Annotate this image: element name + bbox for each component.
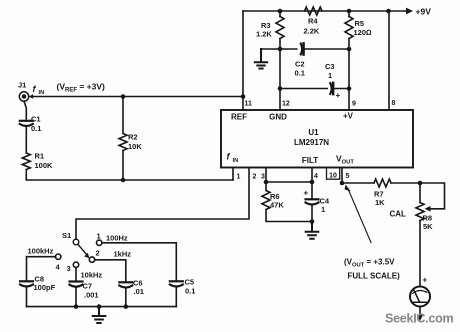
resistor R1 [22,153,30,170]
svg-text:LM2917N: LM2917N [294,138,329,147]
svg-text:120Ω: 120Ω [354,28,373,37]
node junction (125.8,306.6) [124,304,129,309]
svg-text:3: 3 [261,174,265,181]
svg-text:SeekIC.com: SeekIC.com [385,312,454,326]
pin 10 box [327,168,340,180]
svg-text:1: 1 [328,71,332,80]
svg-text:1K: 1K [375,198,385,207]
svg-text:C5: C5 [185,278,195,287]
resistor R7 [374,179,391,187]
svg-text:0.1: 0.1 [295,69,305,78]
svg-text:5: 5 [346,173,350,180]
capacitor C7 [70,280,83,282]
svg-text:+: + [336,91,341,100]
node CAL wiper arrowhead [425,206,431,212]
node junction (349,11) [347,9,352,14]
svg-text:4: 4 [314,173,318,180]
wire R7 to R8 node [391,182,420,184]
svg-text:R4: R4 [308,17,318,26]
wire meter bottom lead [419,307,421,316]
wire column x=349 rail to pin 9 (through R5) [348,11,350,110]
node junction (342,183) [340,181,345,186]
ground near R3 [255,49,267,69]
svg-text:10K: 10K [128,142,142,151]
node junction (280,11) [278,9,283,14]
wire row y=49 (R3 bottom to R5 bottom, through C2) [261,48,349,50]
switch contact 2 [89,257,94,262]
node junction (420,183) [418,181,423,186]
svg-text:C7: C7 [83,282,93,291]
svg-text:FULL SCALE): FULL SCALE) [348,272,401,281]
ground below cap bank [93,307,106,323]
node junction (266,182) [264,180,269,185]
svg-text:FILT: FILT [302,156,318,165]
resistor R5 [345,17,353,39]
node junction (388.5,11) [386,9,391,14]
svg-text:9: 9 [352,101,356,108]
switch S1 arm [78,244,87,255]
svg-text:100K: 100K [35,161,54,170]
wire pin 3 stub [265,168,267,183]
capacitor C8 [20,280,33,282]
wire f_IN horizontal from J1 to REF riser [32,96,243,98]
svg-text:+V: +V [343,112,354,121]
op-amp U1 LM2917N body [221,110,413,168]
svg-text:.01: .01 [134,287,144,296]
svg-text:U1: U1 [308,128,319,137]
svg-text:47K: 47K [270,201,284,210]
node junction (349,88.5) [347,86,352,91]
svg-text:IN: IN [233,158,239,164]
svg-text:1: 1 [97,232,101,241]
svg-text:8: 8 [392,100,396,107]
svg-text:C6: C6 [133,278,143,287]
svg-text:+: + [304,189,309,198]
svg-text:+9V: +9V [416,6,432,16]
wire C1 to R1 [25,127,27,153]
node junction (76,306.6) [74,304,79,309]
capacitor C5 [170,280,183,282]
wire R1 bottom to pin 1 [26,170,233,181]
wire row y=88.5 (pin12 column to pin9 column, through C3) [280,88,349,90]
resistor R6 [265,182,267,191]
svg-text:S1: S1 [62,231,71,240]
svg-text:J1: J1 [18,80,26,89]
wire VOUT annotation arrow [348,190,371,243]
switch contact 4 [56,254,61,259]
wire +9V top rail [243,10,406,12]
svg-text:1.2K: 1.2K [256,30,272,39]
node junction (99,306.6) [97,304,102,309]
svg-text:5K: 5K [423,222,433,231]
node junction (280,88.5) [278,86,283,91]
svg-text:C1: C1 [31,114,41,123]
wire 100kHz contact4 to C8 [27,257,56,281]
wire cap bank bottom bus [27,306,177,308]
node +9V arrowhead [406,8,413,15]
resistor R4 [305,7,323,15]
meter M1 [410,287,430,307]
svg-text:0.1: 0.1 [31,124,41,133]
wire pin5 to R7 [342,182,374,184]
wire pin 2 to switch pole [76,168,249,240]
wire J1 down to C1 [24,101,26,119]
svg-text:11: 11 [245,101,253,108]
connector J1 [19,92,28,101]
node junction (349,49) [347,47,352,52]
svg-text:+: + [423,276,428,285]
svg-text:1kHz: 1kHz [114,250,132,259]
capacitor C3 (curved left plate, flat right plate, polarized) [330,83,331,94]
svg-text:10: 10 [329,172,337,179]
svg-text:IN: IN [39,90,45,96]
node junction (280,49) [278,47,283,52]
svg-text:1: 1 [321,205,325,214]
svg-text:10kHz: 10kHz [81,270,103,279]
capacitor C4 polarized [311,182,313,198]
ground below C4 [306,222,319,239]
svg-text:R5: R5 [355,19,365,28]
wire pin 1 stub [232,168,234,181]
svg-text:2: 2 [96,248,100,257]
svg-text:100pF: 100pF [34,283,56,292]
node junction (123,180) [121,178,126,183]
switch S1 pole [73,239,79,245]
svg-text:0.1: 0.1 [185,286,195,295]
node junction (123,96.5) [121,94,126,99]
svg-text:100kHz: 100kHz [28,247,54,256]
node junction (312,182) [310,180,315,185]
svg-text:GND: GND [269,113,287,122]
svg-text:3: 3 [67,264,71,273]
svg-text:R1: R1 [35,151,45,160]
svg-text:C2: C2 [295,60,305,69]
node junction (312,221.5) [310,219,315,224]
capacitor C6 [119,281,132,283]
resistor R3 [276,17,284,39]
capacitor C2 (curved left plate, flat right plate) [301,44,302,55]
resistor R2 [122,97,124,134]
resistor R8 [419,183,421,203]
svg-text:.001: .001 [84,290,99,299]
wire column x=389 rail to pin 8 [388,11,390,110]
capacitor C1 [20,120,33,122]
svg-text:C3: C3 [325,62,335,71]
svg-text:CAL: CAL [390,209,407,218]
svg-text:REF: REF [231,113,247,122]
wire 1kHz contact2 to C6 [95,260,126,282]
svg-text:2: 2 [253,174,257,181]
wire CAL wiper loop [420,183,445,209]
switch contact 1 [97,240,102,245]
svg-text:1: 1 [237,174,241,181]
wire pin 4 stub [311,168,313,183]
switch contact 3 [73,262,78,267]
svg-text:12: 12 [282,101,290,108]
node junction (243,96.5) [241,94,246,99]
svg-text:2.2K: 2.2K [304,27,320,36]
wire contact3 to C7 [75,268,77,281]
svg-text:R2: R2 [128,133,138,142]
svg-text:100Hz: 100Hz [106,234,128,243]
wire column x=280 rail to pin 12 (through R3) [279,11,281,110]
wire pin 5 stub [341,168,343,184]
wire REF riser x=243 from +9V rail to pin 11 [242,11,244,110]
wire pin3 to pin4 row [266,181,312,183]
wire 100Hz contact1 to C5 [102,243,176,280]
